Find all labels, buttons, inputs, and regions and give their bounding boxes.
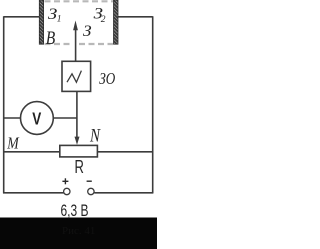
svg-text:З: З [83,23,92,40]
svg-text:Рис. 41: Рис. 41 [62,225,95,237]
svg-text:В: В [46,28,56,49]
svg-text:2: 2 [101,15,106,25]
svg-text:V: V [32,108,41,128]
svg-text:R: R [75,157,84,177]
svg-text:М: М [6,133,19,152]
svg-text:6,3 В: 6,3 В [61,201,89,220]
svg-text:N: N [89,125,101,146]
svg-text:ЗО: ЗО [99,69,115,88]
svg-text:1: 1 [57,15,62,25]
